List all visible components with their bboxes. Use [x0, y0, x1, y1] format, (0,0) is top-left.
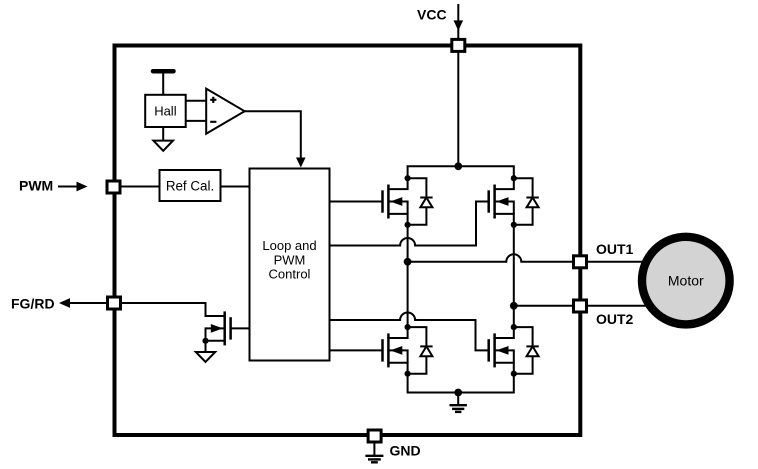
wire H-bridge bottom rail (ground): [408, 374, 514, 393]
pin PWM: [107, 181, 120, 193]
transistor Q5 (FG/RD open-drain): [206, 311, 231, 345]
junction dot node OUT1: [404, 258, 412, 266]
ground (Q5 source): [196, 352, 215, 362]
pin OUT1: [574, 256, 587, 268]
wire FG/RD output with arrow: [59, 298, 107, 308]
wire gate drive to Q1 (top-left): [330, 201, 383, 203]
junction dot VCC / top rail: [454, 162, 462, 170]
body diode of Q1 (high-side left): [408, 178, 433, 225]
pin OUT2: [574, 300, 587, 312]
wire right column (OUT2 node): [513, 225, 515, 327]
wire node OUT2 to pin OUT2: [514, 305, 572, 307]
pin VCC: [452, 39, 465, 51]
svg-text:GND: GND: [390, 443, 421, 459]
svg-text:Motor: Motor: [668, 272, 704, 288]
svg-text:Loop and: Loop and: [262, 238, 316, 253]
transistor Q1 (high-side left): [383, 178, 408, 225]
block Loop and PWM Control: [250, 169, 330, 361]
svg-text:FG/RD: FG/RD: [11, 296, 55, 312]
wire VCC to H-bridge top rail: [457, 52, 459, 166]
junction dots of Q4 (low-side right): [511, 324, 517, 377]
svg-text:OUT2: OUT2: [596, 311, 634, 327]
wire H-bridge top rail (VCC): [408, 166, 514, 178]
wire Hall to ground: [162, 127, 164, 141]
wire OUT2 pin to motor: [588, 305, 648, 307]
ground (GND pin): [365, 456, 383, 463]
ground (H-bridge bottom rail): [450, 393, 467, 412]
junction dot bottom rail / ground: [454, 389, 462, 397]
wire GND pin to ground: [373, 443, 375, 456]
junction dot node OUT2: [510, 302, 518, 310]
wire gate drive to Q4 (bottom-right), hops over left column: [330, 313, 489, 351]
wire Hall to comparator + input: [186, 100, 207, 102]
wire PWM input with arrow: [58, 182, 88, 192]
Hall sensor block: [145, 95, 186, 127]
svg-text:VCC: VCC: [417, 7, 447, 23]
svg-text:PWM: PWM: [19, 178, 53, 194]
body diode of Q3 (low-side left): [408, 327, 433, 374]
wire node OUT1 to pin OUT1, hops over right column: [408, 254, 572, 262]
wire bias bar to Hall: [162, 71, 164, 95]
wire Hall to comparator - input: [186, 120, 207, 122]
motor M1: [642, 237, 730, 325]
wire comparator output to control block with arrow: [245, 111, 306, 167]
transistor Q4 (low-side right): [489, 327, 514, 374]
junction dots of Q1 (high-side left): [405, 175, 411, 228]
hall bias supply bar: [153, 69, 174, 74]
svg-text:OUT1: OUT1: [596, 241, 634, 257]
junction dot Q5 source/body: [202, 338, 208, 344]
svg-text:PWM: PWM: [274, 252, 306, 267]
pin GND: [368, 430, 381, 442]
svg-text:Control: Control: [269, 267, 311, 282]
wire Q5 source to ground: [205, 341, 207, 352]
body diode of Q2 (high-side right): [514, 178, 539, 225]
wire left column (OUT1 node): [407, 225, 409, 327]
pin FG/RD: [108, 297, 121, 309]
body diode of Q4 (low-side right): [514, 327, 539, 374]
junction dots of Q2 (high-side right): [511, 175, 517, 228]
wire Ref Cal to control block: [221, 186, 250, 188]
comparator U1: [206, 89, 244, 134]
svg-text:Hall: Hall: [154, 104, 177, 119]
block Ref Cal: [160, 170, 221, 201]
chip boundary: [115, 46, 581, 436]
junction dots of Q3 (low-side left): [405, 324, 411, 377]
ground (hall): [153, 141, 173, 151]
wire PWM pin to Ref Cal: [122, 186, 160, 188]
wire gate drive to Q3 (bottom-left): [330, 349, 383, 351]
transistor Q3 (low-side left): [383, 327, 408, 374]
wire VCC input with arrow: [454, 4, 464, 38]
wire gate of Q5 to control block: [231, 327, 250, 329]
wire OUT1 pin to motor: [588, 261, 648, 263]
wire FG/RD pin to open-drain FET: [122, 303, 225, 316]
wire gate drive to Q2 (top-right), hops over left column: [330, 202, 489, 246]
transistor Q2 (high-side right): [489, 178, 514, 225]
svg-text:Ref Cal.: Ref Cal.: [166, 178, 214, 193]
